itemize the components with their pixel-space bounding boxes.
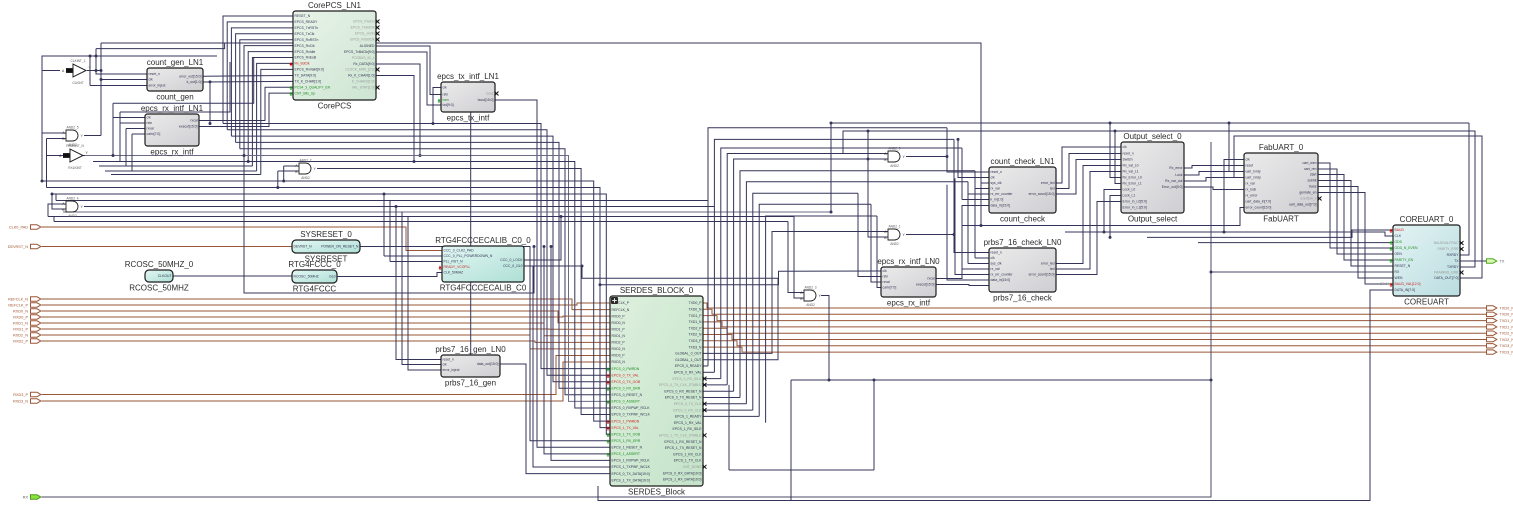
svg-text:RTG4FCCC_0: RTG4FCCC_0	[288, 260, 341, 269]
wire M line 5	[42, 181, 610, 421]
svg-text:CCC_0_LOCK: CCC_0_LOCK	[500, 258, 523, 262]
svg-text:count_gen: count_gen	[156, 93, 193, 102]
svg-text:data_in[15:0]: data_in[15:0]	[991, 278, 1011, 282]
wire clk over serdes	[600, 271, 881, 285]
svg-text:BAUD: BAUD	[1395, 228, 1405, 232]
svg-text:SERDES_Block: SERDES_Block	[628, 488, 686, 497]
gate AND2_4	[62, 197, 83, 218]
svg-text:B: B	[884, 158, 887, 162]
wire serdes right stub 14	[703, 390, 734, 392]
svg-text:error_out[15:0]: error_out[15:0]	[179, 75, 201, 79]
svg-text:execut[15:0]: execut[15:0]	[916, 283, 935, 287]
svg-text:rx_err_counter: rx_err_counter	[991, 273, 1014, 277]
svg-text:prbs7_16_gen: prbs7_16_gen	[445, 379, 496, 388]
svg-text:k_out[1:0]: k_out[1:0]	[187, 80, 202, 84]
junction M2 B	[247, 160, 250, 163]
svg-text:EPCS_0_RESET_N: EPCS_0_RESET_N	[612, 393, 643, 397]
wire coreuart rxrdy loop	[1460, 123, 1469, 255]
wire TXD net 5	[703, 335, 1486, 340]
svg-text:EPCS_0_RX_ERR: EPCS_0_RX_ERR	[612, 386, 641, 390]
port REFCLK_N	[8, 297, 41, 302]
svg-text:AND2_0: AND2_0	[888, 147, 900, 151]
junction cc clk	[957, 138, 960, 141]
svg-text:REFCLK_N: REFCLK_N	[8, 297, 28, 301]
port RXD1_N	[13, 321, 41, 326]
wire E bundle 8	[759, 204, 871, 416]
port RXD2_P	[13, 339, 41, 344]
svg-text:rx_val: rx_val	[991, 267, 1000, 271]
junction gl0b	[581, 265, 584, 268]
svg-text:calrx[7:0]: calrx[7:0]	[883, 286, 897, 290]
svg-text:clk: clk	[991, 256, 995, 260]
svg-text:error_inject: error_inject	[149, 84, 166, 88]
junction rxdata	[419, 154, 422, 157]
wire M line 2	[93, 162, 610, 409]
svg-text:DATA_IN[7:0]: DATA_IN[7:0]	[1395, 288, 1415, 292]
svg-text:EPCS_1_ASSERT: EPCS_1_ASSERT	[612, 452, 640, 456]
junction fab clk	[1223, 231, 1226, 234]
svg-text:count_check: count_check	[1000, 215, 1046, 224]
wire corepcs left fan 9	[261, 69, 293, 174]
svg-text:uart_data_in[7:0]: uart_data_in[7:0]	[1246, 200, 1272, 204]
wire H3 line 9	[84, 206, 714, 208]
wire K line 3	[236, 142, 610, 388]
junction and23	[828, 379, 831, 382]
svg-text:RXD1_P: RXD1_P	[13, 327, 28, 331]
wire serdes global0	[703, 232, 888, 354]
svg-text:EPCS_0_RXPWF_RCLK: EPCS_0_RXPWF_RCLK	[612, 406, 651, 410]
wire fabuart out 3	[1318, 181, 1393, 267]
port RXD1_P	[13, 327, 41, 332]
svg-text:EPCS_0_TX_DATA[19:0]: EPCS_0_TX_DATA[19:0]	[612, 472, 650, 476]
wire serdes right stub 10	[703, 365, 708, 367]
junction clk x101	[100, 69, 103, 72]
wire TXD net 4	[703, 328, 1486, 333]
svg-text:CCC_0_GL0: CCC_0_GL0	[503, 264, 523, 268]
svg-text:AND2_4: AND2_4	[66, 197, 78, 201]
wire corepcs left fan 0	[223, 16, 293, 124]
wire H3 line 9b	[63, 211, 831, 213]
junction and22B	[276, 186, 279, 189]
svg-text:RTG4FCCCECALIB_C0: RTG4FCCCECALIB_C0	[440, 284, 527, 293]
wire rxlkint out short	[83, 155, 85, 157]
svg-text:AND2: AND2	[68, 214, 77, 218]
wire B5 long drop	[244, 156, 534, 294]
junction 947	[946, 155, 949, 158]
wire coreuart dataout loop	[1234, 136, 1482, 278]
svg-text:INIT_DONE: INIT_DONE	[683, 465, 702, 469]
wire line174	[111, 174, 261, 176]
svg-text:reset_n: reset_n	[991, 251, 1002, 255]
svg-text:AND2: AND2	[890, 242, 899, 246]
svg-text:calrx[7:0]: calrx[7:0]	[147, 132, 161, 136]
svg-text:RXD0_P: RXD0_P	[612, 314, 626, 318]
svg-text:start: start	[1310, 173, 1317, 177]
svg-text:EPCS_READY: EPCS_READY	[295, 20, 319, 24]
svg-text:AND2_5: AND2_5	[66, 126, 78, 130]
wire e-vert 968	[967, 182, 969, 264]
svg-text:CLKINT_1: CLKINT_1	[71, 59, 86, 63]
wire epcsrx1 in1	[113, 117, 145, 119]
svg-text:EPCS_1_TXPWF_WCLK: EPCS_1_TXPWF_WCLK	[612, 465, 651, 469]
svg-text:READY_VCOPLL: READY_VCOPLL	[444, 265, 471, 269]
svg-text:PCSBUS_ID_x: PCSBUS_ID_x	[352, 56, 375, 60]
svg-text:OEN: OEN	[1395, 252, 1403, 256]
junction errinj	[89, 55, 92, 58]
wire RXD pad net 1	[42, 303, 611, 305]
svg-text:EPCS_RxRSTn: EPCS_RxRSTn	[295, 38, 319, 42]
svg-text:k_in[1:0]: k_in[1:0]	[991, 198, 1004, 202]
wire clk top long	[101, 43, 981, 226]
junction por2	[550, 245, 553, 248]
svg-text:Rx_DATA[9:0]: Rx_DATA[9:0]	[353, 62, 374, 66]
wire K line 4	[240, 149, 610, 395]
svg-text:EPCS_RxValid[9:0]: EPCS_RxValid[9:0]	[295, 68, 324, 72]
svg-text:rx_err_counter: rx_err_counter	[991, 192, 1014, 196]
wire RXD3_P net	[42, 356, 611, 395]
svg-text:Switch: Switch	[1123, 158, 1133, 162]
svg-text:CCC_0_CLK2_PAD: CCC_0_CLK2_PAD	[444, 249, 475, 253]
svg-text:EPCS_TxBdClk[9:0]: EPCS_TxBdClk[9:0]	[344, 50, 375, 54]
wire epcsrx1 in2	[120, 122, 145, 124]
wire left vert x56	[55, 194, 57, 201]
block epcs_tx_intf_LN1	[437, 72, 499, 123]
svg-text:clk: clk	[443, 86, 447, 90]
svg-text:WEN: WEN	[1395, 276, 1403, 280]
junction rxk	[413, 160, 416, 163]
wire E bundle 0	[708, 128, 947, 366]
port RXD2_N	[13, 333, 41, 338]
svg-text:AND2: AND2	[301, 176, 310, 180]
svg-text:TXD3_N: TXD3_N	[688, 345, 702, 349]
svg-text:EPCS_0_ASSERT: EPCS_0_ASSERT	[612, 400, 640, 404]
svg-text:reset: reset	[1246, 164, 1254, 168]
svg-text:TXD0_P: TXD0_P	[1500, 306, 1513, 310]
svg-text:Error_out[5:0]: Error_out[5:0]	[1162, 185, 1183, 189]
svg-text:AND2: AND2	[806, 303, 815, 307]
wire prbsgen out	[500, 364, 610, 474]
svg-text:uart_rxrdy: uart_rxrdy	[1246, 176, 1262, 180]
port TXD1_N	[1487, 325, 1513, 330]
svg-text:EPCS_0_TX_CLK: EPCS_0_TX_CLK	[674, 402, 702, 406]
svg-text:Rx_Error_L1: Rx_Error_L1	[1123, 182, 1142, 186]
junction B5 tie	[533, 245, 536, 248]
svg-text:GLOBAL_1_OUT: GLOBAL_1_OUT	[675, 358, 701, 362]
svg-text:RXD0_P: RXD0_P	[13, 315, 28, 319]
junction x113	[112, 154, 115, 157]
wire corepcs left fan 6	[248, 52, 293, 162]
wire loop vert	[95, 49, 97, 71]
svg-text:CNT_Bits_Up: CNT_Bits_Up	[295, 91, 316, 95]
svg-text:EPCS_1_TX_DATA[19:0]: EPCS_1_TX_DATA[19:0]	[612, 478, 650, 482]
svg-text:AND2_3: AND2_3	[804, 286, 816, 290]
wire left vert x54	[53, 217, 55, 222]
svg-text:B: B	[800, 297, 803, 301]
svg-text:reset_n: reset_n	[443, 358, 454, 362]
wire E bundle 5	[740, 171, 975, 398]
wire errinj vert	[89, 56, 91, 86]
wire count_gen out2	[203, 80, 293, 83]
svg-text:epcs_tx_intf_LN1: epcs_tx_intf_LN1	[437, 72, 499, 81]
wire corepcs left fan 2	[231, 28, 293, 136]
wire RXD pad net 6	[42, 335, 611, 349]
wire epcsrx1 in3v	[125, 129, 127, 167]
wire mid long4	[1198, 242, 1393, 244]
wire os feed 1	[1110, 123, 1121, 178]
port RXD0_N	[13, 309, 41, 314]
wire in2v ext	[119, 112, 121, 123]
svg-text:RCOSC_50MHZ: RCOSC_50MHZ	[294, 275, 319, 279]
svg-text:RXRDY: RXRDY	[1447, 253, 1460, 257]
svg-text:rstn: rstn	[443, 93, 449, 97]
wire countcheck out 1	[1056, 154, 1121, 189]
svg-text:EPCS_RxClk: EPCS_RxClk	[295, 44, 315, 48]
gate AND2_2	[295, 159, 316, 180]
port REFCLK_P	[8, 303, 40, 308]
svg-text:sys_clk: sys_clk	[991, 262, 1002, 266]
svg-text:AND2_2: AND2_2	[299, 159, 311, 163]
wire line171	[105, 170, 257, 172]
svg-text:Y: Y	[81, 134, 84, 138]
wire rxlkint in	[47, 155, 64, 157]
svg-text:TXD0_P: TXD0_P	[689, 301, 703, 305]
wire E bundle 2	[721, 148, 962, 379]
wire and2_0 out	[906, 157, 989, 173]
wire and22 inA hairpin	[283, 166, 285, 181]
svg-text:prbs7_16_check: prbs7_16_check	[993, 294, 1053, 303]
svg-text:Rx_BdClk: Rx_BdClk	[295, 62, 310, 66]
junction fab txrdy	[1228, 122, 1231, 125]
junction M1 B	[243, 154, 246, 157]
svg-text:EPCS_TxClk: EPCS_TxClk	[295, 32, 315, 36]
svg-text:A: A	[800, 291, 803, 295]
svg-text:count_check_LN1: count_check_LN1	[990, 157, 1055, 166]
wire fabuart out 4	[1318, 187, 1393, 279]
wire TXD net 6	[703, 341, 1486, 346]
svg-text:epcs_rx_intf: epcs_rx_intf	[150, 148, 194, 157]
svg-text:EPCS_1_RX_ERR: EPCS_1_RX_ERR	[612, 439, 641, 443]
svg-text:rx_error: rx_error	[1246, 194, 1259, 198]
svg-text:EPCS_0_RX_IDLE: EPCS_0_RX_IDLE	[672, 377, 702, 381]
wire TXD net 2	[703, 316, 1486, 321]
svg-text:txout: txout	[486, 92, 493, 96]
svg-text:TXD0_N: TXD0_N	[1500, 313, 1513, 317]
port DEVRST_N	[8, 244, 41, 249]
svg-text:EPCS_RxBdClk: EPCS_RxBdClk	[350, 38, 375, 42]
svg-text:EPCS_0_TX_RESET_N: EPCS_0_TX_RESET_N	[665, 396, 702, 400]
svg-text:RXD3_N: RXD3_N	[612, 360, 626, 364]
svg-text:DATA_OUT[7:0]: DATA_OUT[7:0]	[1434, 276, 1458, 280]
svg-text:rxcal: rxcal	[927, 277, 934, 281]
svg-text:RXD3_P: RXD3_P	[612, 354, 626, 358]
svg-text:EPCS_1_TX_VAL: EPCS_1_TX_VAL	[612, 426, 639, 430]
wire and2_3 out	[821, 296, 829, 381]
wire TXD net 3	[703, 322, 1486, 327]
wire feeder x955	[955, 178, 989, 274]
svg-text:EPCS_0_RX_RESET_N: EPCS_0_RX_RESET_N	[664, 389, 702, 393]
wire left vert x52	[52, 194, 66, 209]
svg-text:epcs_tx_intf: epcs_tx_intf	[447, 114, 490, 123]
svg-text:rstn: rstn	[147, 121, 153, 125]
junction lock	[560, 215, 563, 218]
port RXD3_P	[13, 392, 41, 397]
junction clkover	[599, 283, 602, 286]
svg-text:RXD1_N: RXD1_N	[612, 334, 626, 338]
junction c1	[383, 193, 386, 196]
svg-text:Rx_var_out: Rx_var_out	[1165, 179, 1182, 183]
svg-text:epcs_rx_intf: epcs_rx_intf	[887, 299, 931, 308]
svg-text:Lock_L1: Lock_L1	[1123, 194, 1136, 198]
svg-text:epcs_rx_intf_LN0: epcs_rx_intf_LN0	[877, 257, 940, 266]
svg-text:EPCS_1_TX_CLK_STABLE: EPCS_1_TX_CLK_STABLE	[659, 434, 702, 438]
wire mid long2	[1065, 232, 1393, 236]
gate AND2_0	[884, 147, 905, 168]
wire epcsrx1 in4v	[131, 134, 133, 171]
wire rcosc out	[173, 275, 292, 277]
svg-text:rxcal: rxcal	[190, 119, 197, 123]
junction loop	[95, 55, 98, 58]
wire and25 inA	[42, 132, 66, 134]
wire count_gen clk	[101, 79, 147, 81]
wire C vert5	[408, 217, 441, 371]
svg-text:Rx_val_L0: Rx_val_L0	[1123, 164, 1139, 168]
svg-text:RESET_N: RESET_N	[295, 14, 311, 18]
svg-text:PARITY_ERR: PARITY_ERR	[1437, 247, 1459, 251]
wire countcheck in5	[962, 199, 989, 201]
wire and22 inA	[284, 165, 299, 167]
svg-text:CLKINT: CLKINT	[72, 81, 83, 85]
wire prbscheck in2	[975, 257, 989, 259]
wire outputselect out 0	[1184, 166, 1244, 169]
svg-text:TX_DATA[9:0]: TX_DATA[9:0]	[295, 74, 316, 78]
wire kout branch	[209, 82, 211, 124]
port RXD3_N	[13, 399, 41, 404]
wire calib in3	[390, 261, 442, 263]
wire and25 inB	[47, 138, 67, 140]
svg-text:AND2: AND2	[890, 164, 899, 168]
wire in1v ext	[112, 103, 114, 117]
wire por fan 1	[544, 247, 610, 454]
wire count_gen errinj	[90, 85, 147, 87]
wire DEVRST_N net	[42, 246, 293, 248]
wire corepcs TxBdClk	[376, 52, 441, 105]
svg-text:Y: Y	[314, 167, 317, 171]
wire CLK0_PAD net	[42, 227, 443, 251]
svg-text:A: A	[884, 230, 887, 234]
wire vert x470	[470, 112, 472, 355]
wire fabuart out 0	[1318, 163, 1393, 248]
svg-text:trans: trans	[1309, 185, 1317, 189]
svg-text:SYSRESET_0: SYSRESET_0	[300, 230, 352, 239]
wire left vert x48	[48, 204, 66, 217]
svg-text:EPCS_TxRSTn: EPCS_TxRSTn	[295, 26, 319, 30]
wire TXD net 0	[703, 303, 1486, 308]
wire corepcs left fan 7	[252, 58, 293, 167]
gate AND2_1	[884, 225, 905, 246]
wire outputselect out 3	[1184, 187, 1244, 190]
wire calib lock	[524, 217, 561, 261]
wire bottom vert x874	[873, 380, 875, 470]
svg-text:Rx_Error_L0: Rx_Error_L0	[1123, 176, 1142, 180]
svg-text:rx_lock: rx_lock	[1246, 188, 1257, 192]
wire and25 out	[84, 135, 101, 137]
svg-text:PCS4_3_QUALIFY_EN: PCS4_3_QUALIFY_EN	[295, 85, 331, 89]
svg-text:EPCS_1_TX_OOB: EPCS_1_TX_OOB	[612, 432, 641, 436]
port TXD0_N	[1487, 312, 1513, 317]
svg-text:Output_select: Output_select	[1128, 215, 1178, 224]
svg-text:TXD2_N: TXD2_N	[1500, 338, 1513, 342]
svg-text:GL0: GL0	[329, 275, 336, 279]
block RTG4FCCCECALIB_C0_0	[435, 236, 531, 293]
wire vert x729 ext	[728, 385, 730, 470]
junction and22A	[282, 180, 285, 183]
svg-text:COREUART_0: COREUART_0	[1400, 215, 1454, 224]
svg-text:RXD0_N: RXD0_N	[612, 321, 626, 325]
port TXD2_P	[1487, 331, 1513, 336]
wire clkint loop	[42, 56, 217, 71]
svg-text:EPCS_1_RESET_N: EPCS_1_RESET_N	[612, 446, 643, 450]
block SERDES_BLOCK_0	[607, 286, 707, 497]
svg-text:EPCS_1_TX_RESET_N: EPCS_1_TX_RESET_N	[665, 446, 702, 450]
wire and2_3 inA	[788, 222, 804, 293]
svg-text:EPCS_0_RX_DATA[19:0]: EPCS_0_RX_DATA[19:0]	[663, 471, 702, 475]
svg-text:ODD: ODD	[1395, 240, 1403, 244]
wire line103	[113, 58, 254, 103]
wire E bundle 3	[727, 154, 888, 385]
svg-text:REFCLK_N: REFCLK_N	[612, 308, 630, 312]
label coreuart grey	[1380, 282, 1392, 286]
junction RX branch	[1210, 271, 1213, 274]
svg-text:FabUART_0: FabUART_0	[1259, 143, 1304, 152]
wire coreuart tx	[1460, 260, 1486, 262]
svg-text:subhit: subhit	[1307, 179, 1316, 183]
wire H3 line 8	[56, 200, 708, 202]
svg-text:reset_n: reset_n	[991, 170, 1002, 174]
wire calib gl0	[524, 265, 582, 267]
wire prbscheck out 1	[1056, 172, 1121, 270]
wire RX net long	[42, 142, 1212, 497]
svg-text:Lock: Lock	[1175, 173, 1182, 177]
wire and2_3 inB	[794, 217, 804, 299]
svg-text:K_CHARS[1:0]: K_CHARS[1:0]	[352, 80, 375, 84]
svg-text:error_inject: error_inject	[443, 368, 460, 372]
svg-text:uart_ren: uart_ren	[1304, 167, 1317, 171]
wire epcsrx1 in4	[132, 133, 145, 135]
wire and22 inB hairpin	[277, 171, 279, 188]
svg-text:EPCS_RxEoB: EPCS_RxEoB	[295, 56, 317, 60]
wire outputselect out 1	[1184, 172, 1244, 176]
svg-text:AND2_1: AND2_1	[888, 225, 900, 229]
svg-text:Error_in_L0[5:0]: Error_in_L0[5:0]	[1123, 200, 1147, 204]
wire and20b stub	[868, 158, 888, 160]
wire outputselect out 2	[1184, 178, 1244, 182]
svg-text:led: led	[1050, 267, 1055, 271]
svg-text:uart_wen: uart_wen	[1303, 161, 1317, 165]
wire fabuart clk feed	[1224, 160, 1244, 233]
svg-text:A: A	[62, 69, 65, 73]
svg-text:DEVRST_N: DEVRST_N	[8, 245, 29, 249]
wire countcheck in2	[981, 182, 989, 184]
wire countcheck in3	[975, 188, 989, 190]
wire epcsrx1 in1v	[112, 118, 114, 156]
svg-text:PARITY_EN: PARITY_EN	[1395, 258, 1414, 262]
junction x52	[51, 193, 54, 196]
svg-text:TX: TX	[1454, 259, 1459, 263]
wire serdes right stub 12	[703, 378, 721, 380]
wire line112	[120, 62, 230, 112]
wire RXD pad net 2	[42, 311, 611, 323]
wire corepcs left fan 5	[244, 46, 293, 156]
